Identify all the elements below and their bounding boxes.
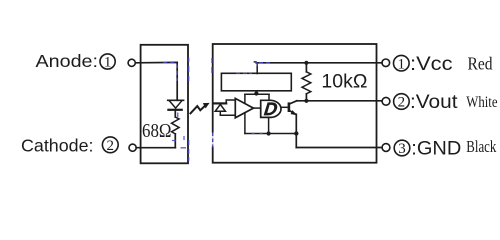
- photodiode PD: [214, 102, 226, 104]
- terminal Vout: [382, 97, 390, 105]
- pin number 3 (circled) right: [394, 140, 410, 156]
- ground bus: [245, 133, 296, 135]
- svg-text:3: 3: [398, 141, 406, 157]
- wire amp output: [253, 107, 260, 109]
- LED D1: [168, 99, 184, 101]
- pin number 2 (circled) right: [394, 94, 410, 110]
- wire Vcc rail: [256, 62, 382, 64]
- svg-text:1: 1: [104, 55, 112, 71]
- svg-text:68Ω: 68Ω: [142, 121, 172, 142]
- emitter box (left package): [141, 45, 188, 164]
- wire LED to resistor: [174, 110, 176, 117]
- wire photodiode anode to amp: [220, 114, 235, 116]
- wire supply to schmitt: [268, 94, 270, 100]
- wire anode to LED: [136, 62, 178, 100]
- svg-text:Black: Black: [466, 137, 497, 156]
- pin number 1 (circled) left: [100, 54, 115, 69]
- terminal GND: [382, 144, 390, 152]
- junction resistor top: [304, 61, 308, 65]
- wire resistor to cathode terminal: [136, 147, 175, 149]
- terminal anode: [128, 59, 135, 66]
- wire emitter down: [295, 114, 297, 147]
- svg-text:Red: Red: [468, 53, 493, 73]
- junction schmitt-bus: [267, 131, 271, 135]
- terminal Vcc: [382, 59, 390, 67]
- resistor 68ohm: [172, 117, 180, 134]
- junction block bottom: [254, 91, 258, 95]
- light arrow (photon): [191, 105, 206, 113]
- svg-text::Vcc: :Vcc: [410, 54, 453, 75]
- svg-text:Anode:: Anode:: [36, 51, 99, 71]
- svg-text:1: 1: [398, 56, 406, 72]
- svg-text:10kΩ: 10kΩ: [321, 71, 367, 92]
- svg-text:2: 2: [398, 95, 406, 111]
- op-amp (amplifier triangle): [235, 98, 253, 117]
- wire amp ground drop: [244, 113, 246, 134]
- pin number 1 (circled) right: [394, 55, 410, 71]
- detector box (right package): [213, 44, 377, 163]
- terminal cathode: [129, 144, 136, 151]
- svg-text:Cathode:: Cathode:: [21, 135, 94, 155]
- transistor Q1 (NPN): [288, 102, 291, 112]
- wire schmitt bottom to bus: [268, 117, 270, 133]
- wire photodiode cathode to amp: [226, 100, 235, 103]
- junction emitter-bus: [294, 131, 298, 135]
- wire block top hook to Vcc rail: [254, 62, 257, 74]
- wire schmitt output to base: [282, 106, 288, 108]
- svg-text:White: White: [466, 94, 497, 111]
- resistor 10k: [305, 63, 307, 72]
- pin number 2 (circled) left: [102, 137, 118, 153]
- signal-conditioning block (rectangle): [221, 73, 291, 91]
- svg-text::GND: :GND: [411, 139, 461, 160]
- svg-text:2: 2: [107, 138, 115, 154]
- wire block bottom supply bus: [245, 93, 269, 95]
- svg-text::Vout: :Vout: [410, 92, 458, 113]
- wire ground to GND terminal: [296, 147, 382, 149]
- wire collector to Vout: [297, 100, 382, 102]
- watermark artifacts (faint blue): [163, 58, 270, 162]
- wire supply to amp: [244, 94, 246, 104]
- junction resistor bottom / collector node: [304, 99, 308, 103]
- schmitt trigger U2 (D shape): [261, 100, 281, 117]
